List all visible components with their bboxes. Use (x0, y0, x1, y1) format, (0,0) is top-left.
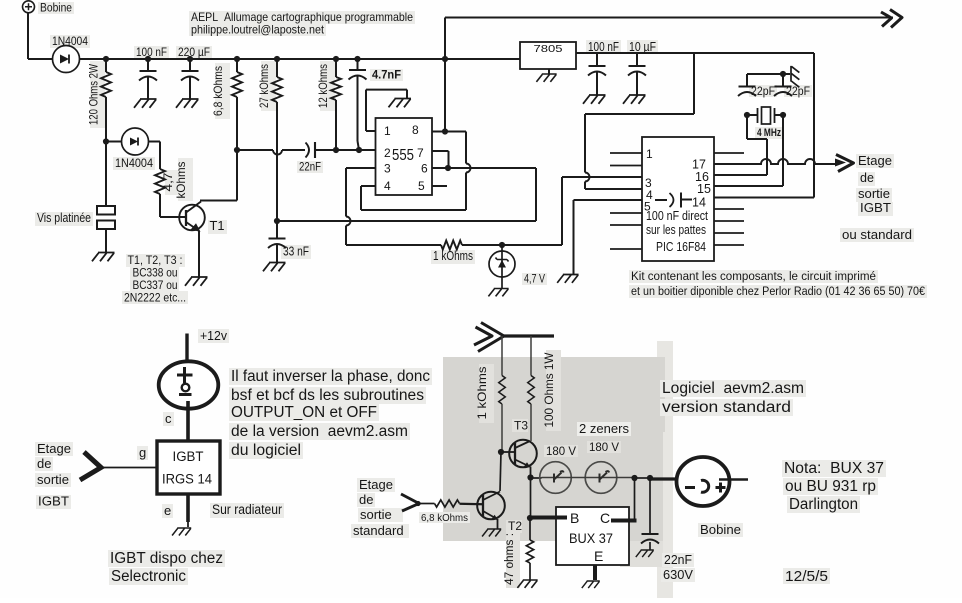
svg-text:sortie: sortie (858, 187, 890, 201)
svg-text:6,8 kOhms: 6,8 kOhms (211, 66, 225, 116)
svg-text:Vis platinée: Vis platinée (37, 211, 91, 225)
svg-text:version standard: version standard (662, 399, 791, 416)
wire IGBT emitter (186, 494, 190, 522)
svg-text:PIC 16F84: PIC 16F84 (656, 239, 706, 254)
transistor T3 (509, 440, 537, 468)
svg-text:Logiciel aevm2.asm: Logiciel aevm2.asm (662, 380, 804, 397)
svg-text:47 ohms :: 47 ohms : (504, 533, 516, 585)
zener diode 180V left (540, 462, 572, 494)
svg-text:22nF: 22nF (299, 162, 321, 174)
wire T1 collector node (236, 150, 238, 201)
capacitor 220 uF (rail) (187, 56, 193, 62)
ground under 7805 (536, 74, 556, 82)
capacitor 100 nF (5V) (596, 53, 598, 66)
ground under T2 (482, 529, 501, 536)
scan gray patch (657, 341, 673, 598)
junction B / 47ohm (527, 515, 533, 521)
wire PIC pin17 to output arrow with hops (714, 159, 836, 164)
svg-text:Darlington: Darlington (789, 496, 858, 513)
svg-text:100 nF: 100 nF (136, 45, 167, 59)
ignition coil Bobine (circle) (677, 457, 730, 506)
svg-text:10 µF: 10 µF (629, 40, 656, 54)
resistor 6,8 kOhms (234, 56, 240, 62)
ground under 4,7V zener (488, 289, 508, 297)
resistor 4,7 kOhms (159, 142, 161, 170)
svg-text:+12v: +12v (200, 328, 227, 343)
svg-text:14: 14 (692, 196, 706, 210)
svg-text:22pF: 22pF (786, 86, 810, 98)
capacitor 33 nF (276, 221, 278, 239)
svg-text:33 nF: 33 nF (283, 245, 309, 259)
svg-text:180 V: 180 V (589, 442, 619, 454)
resistor 1 kOhms (555 output) (441, 241, 462, 250)
svg-text:ou BU 931 rp: ou BU 931 rp (785, 478, 876, 495)
wire 7805 output 5V rail (576, 52, 814, 54)
IGBT module box (157, 441, 220, 494)
capacitor 4.7nF (354, 56, 360, 62)
resistor 120 Ohms 2W (105, 59, 107, 72)
svg-text:Bobine: Bobine (700, 522, 741, 537)
diode D1 1N4004 (circle) (53, 46, 80, 73)
svg-text:bsf et bcf ds les subroutines: bsf et bcf ds les subroutines (231, 387, 424, 404)
svg-text:IGBT: IGBT (38, 494, 69, 509)
junction 120ohm/diode/vis (103, 138, 109, 144)
ground under 100nF (134, 99, 157, 108)
svg-text:g: g (139, 445, 146, 460)
wire 555 pin1 to ground (366, 130, 376, 132)
junction 27k/33nF/pin6 node (274, 218, 280, 224)
svg-text:sur les pattes: sur les pattes (646, 223, 706, 237)
ground IGBT emitter (187, 522, 189, 527)
svg-text:c: c (165, 411, 172, 426)
svg-text:555: 555 (392, 147, 414, 164)
contact breaker Vis platinee (105, 142, 107, 207)
junction 6.8k / 22nF line / T1 collector (234, 147, 240, 153)
ground under 220uF (176, 99, 199, 108)
resistor 27 kOhms (274, 56, 280, 62)
svg-text:6: 6 (421, 162, 428, 176)
IC PIC 16F84 box (642, 137, 714, 261)
svg-text:Sur radiateur: Sur radiateur (212, 502, 282, 517)
ground under 22nF 630V (636, 550, 654, 557)
crystal 4 MHz (744, 112, 750, 118)
capacitor 10 uF (5V) (636, 53, 638, 66)
ground under 100nF 5V (583, 95, 606, 104)
svg-text:Etage: Etage (359, 477, 393, 492)
resistor 1 kOhms lower (501, 336, 503, 376)
svg-text:1N4004: 1N4004 (115, 156, 153, 170)
svg-text:sortie: sortie (360, 507, 392, 522)
svg-text:IGBT: IGBT (860, 201, 891, 215)
svg-text:T2: T2 (508, 519, 522, 533)
svg-text:e: e (164, 503, 171, 518)
PIC right pin stubs (714, 152, 744, 154)
wire 555 pin5 stub (432, 185, 447, 187)
svg-text:Etage: Etage (858, 154, 892, 168)
svg-text:3: 3 (384, 162, 391, 176)
svg-text:7805: 7805 (534, 43, 563, 55)
capacitor 22pF left (746, 74, 748, 87)
capacitor 100nF inside PIC pins 5-14 (655, 199, 667, 201)
svg-text:4,7 V: 4,7 V (524, 274, 545, 286)
arrow double chevron top right (881, 12, 892, 27)
svg-text:Kit contenant les composants,: Kit contenant les composants, le circuit… (631, 269, 876, 283)
svg-text:220 µF: 220 µF (178, 45, 210, 59)
zener diode 4,7V (489, 251, 515, 277)
wire 555 pin8 to +12V (432, 131, 445, 133)
wire T3emitter node down to B (530, 478, 532, 518)
ground crystal (rotated) (783, 73, 790, 75)
svg-text:4 MHz: 4 MHz (757, 127, 781, 139)
svg-text:E: E (594, 548, 603, 564)
capacitor 22pF right (782, 74, 784, 87)
zener diode 180V right (585, 462, 617, 494)
chevron etage de sortie standard (401, 494, 419, 511)
svg-text:4.7nF: 4.7nF (372, 70, 401, 82)
node Bobine terminal (+ circle) (23, 1, 35, 13)
wire main +12V rail (28, 58, 520, 60)
wire B lead (thick) (532, 516, 567, 520)
svg-text:1: 1 (646, 147, 653, 161)
junction rail/120ohm/diode2 (103, 56, 109, 62)
wire PIC pin16 to crystal (714, 174, 767, 176)
ground under vis platinee (92, 253, 115, 262)
ground under 33nF (263, 263, 286, 272)
svg-text:630V: 630V (663, 567, 693, 582)
svg-text:de: de (359, 492, 373, 507)
svg-text:standard: standard (353, 523, 404, 538)
svg-text:et un boitier diponible chez P: et un boitier diponible chez Perlor Radi… (631, 284, 925, 298)
transistor T2 (500, 452, 501, 491)
svg-text:120 Ohms 2W: 120 Ohms 2W (87, 63, 101, 125)
svg-text:2 zeners: 2 zeners (579, 421, 629, 436)
svg-text:12 kOhms: 12 kOhms (316, 64, 330, 108)
svg-text:22pF: 22pF (751, 86, 775, 98)
junction T3 emitter / zener rail (527, 474, 533, 480)
capacitor 100 nF (rail) (145, 56, 151, 62)
wire from bobine terminal down (27, 13, 29, 59)
svg-text:100 Ohms 1W: 100 Ohms 1W (542, 352, 556, 428)
svg-text:22nF: 22nF (664, 552, 692, 567)
resistor 100 Ohms 1W (530, 336, 532, 376)
svg-text:BUX 37: BUX 37 (569, 530, 613, 546)
svg-text:IGBT dispo chez: IGBT dispo chez (110, 550, 223, 567)
svg-text:15: 15 (697, 182, 711, 196)
svg-text:Etage: Etage (37, 441, 71, 456)
svg-text:12/5/5: 12/5/5 (785, 568, 828, 585)
wire to bobine (thick) (650, 477, 688, 480)
wire 555 pin7 tied to pin6 (432, 150, 449, 152)
svg-text:OUTPUT_ON et OFF: OUTPUT_ON et OFF (231, 404, 377, 421)
chevron etage de sortie IGBT input (80, 452, 101, 480)
PIC left pin stubs (610, 152, 642, 154)
svg-text:de: de (860, 171, 874, 185)
svg-text:2: 2 (384, 146, 391, 160)
svg-text:sortie: sortie (37, 472, 69, 487)
wire +12V to output stage arrow (top) (445, 17, 893, 19)
svg-text:philippe.loutrel@laposte.net: philippe.loutrel@laposte.net (191, 23, 325, 37)
junction T3 base / T2 collector (498, 449, 504, 455)
text halos (scan artifacts) (38, 2, 74, 14)
wire lower +12 feed (504, 334, 554, 337)
wire 22nF coupling line with hop over 27k (237, 149, 273, 151)
svg-text:IGBT: IGBT (173, 449, 204, 464)
junction 4.7nF / pin2 (356, 147, 362, 153)
svg-text:kOhms: kOhms (174, 162, 188, 199)
resistor 12 kOhms (333, 56, 339, 62)
wire PIC pin5 to ground (574, 199, 643, 201)
svg-text:100 nF direct: 100 nF direct (646, 209, 708, 223)
svg-text:180 V: 180 V (546, 446, 576, 458)
wire 22pF top link (747, 73, 783, 75)
wire 5V branch to PIC MCLR (693, 53, 695, 114)
wire 555 pin4 to pin8 loop (361, 185, 376, 187)
wire gate (102, 467, 157, 469)
svg-text:4: 4 (384, 179, 391, 193)
svg-text:de: de (37, 456, 51, 471)
svg-text:27 kOhms: 27 kOhms (257, 64, 271, 108)
transistor box BUX 37 (556, 507, 629, 565)
ground under 47 ohms (517, 580, 537, 588)
IC 555 timer box (376, 118, 433, 195)
svg-text:1: 1 (384, 124, 391, 138)
junction 22nF lead (647, 475, 653, 481)
svg-text:1 kOhms: 1 kOhms (475, 367, 489, 420)
svg-text:B: B (570, 510, 579, 526)
battery +12v symbol (185, 334, 188, 364)
svg-text:C: C (600, 510, 610, 526)
resistor 6,8 kOhms lower (419, 503, 435, 505)
svg-text:1N4004: 1N4004 (52, 34, 88, 48)
svg-text:T3: T3 (514, 419, 528, 433)
ground under E (582, 581, 600, 588)
svg-text:Bobine: Bobine (40, 3, 72, 15)
ground PIC pin5 (557, 275, 578, 283)
svg-text:2N2222 etc...: 2N2222 etc... (124, 291, 186, 305)
svg-text:T1: T1 (210, 219, 225, 233)
resistor 47 ohms (529, 518, 531, 540)
junction C lead (631, 475, 637, 481)
arrow input lower stage (478, 323, 504, 352)
svg-text:du logiciel: du logiciel (231, 442, 301, 459)
svg-text:Nota: BUX 37: Nota: BUX 37 (784, 460, 884, 477)
regulator 7805 (520, 42, 576, 69)
transistor T1 (179, 205, 205, 231)
wire C lead of BUX37 (634, 478, 636, 519)
junction 12k bottom (333, 147, 339, 153)
svg-text:IRGS 14: IRGS 14 (162, 472, 212, 487)
svg-text:5: 5 (418, 179, 425, 193)
arrow to Etage de sortie (835, 159, 846, 167)
svg-text:de la version aevm2.asm: de la version aevm2.asm (231, 423, 408, 440)
svg-text:100 nF: 100 nF (588, 40, 619, 54)
ground under 10uF (623, 95, 646, 104)
capacitor 22nF 630V (649, 478, 651, 533)
diode D2 1N4004 (circle) (106, 141, 122, 143)
svg-text:ou standard: ou standard (842, 228, 912, 242)
svg-text:1 kOhms: 1 kOhms (433, 249, 473, 263)
capacitor 22nF series (306, 143, 310, 158)
svg-text:4,7: 4,7 (161, 172, 175, 191)
svg-text:7: 7 (417, 146, 424, 160)
svg-text:Il faut inverser la phase, don: Il faut inverser la phase, donc (231, 368, 430, 385)
wire zener line to PIC pin3 (499, 242, 505, 248)
svg-text:Selectronic: Selectronic (111, 568, 186, 585)
wire 555 pin6 threshold (432, 167, 536, 169)
wire PIC pin15 to crystal (714, 185, 783, 187)
wire 555 pin3 output (346, 167, 376, 169)
ground under T1 (185, 277, 208, 286)
svg-text:6,8 kOhms: 6,8 kOhms (421, 512, 468, 524)
wire PIC pin14 to 5V (714, 197, 814, 199)
wire E lead (thick) (593, 565, 597, 580)
svg-text:8: 8 (412, 123, 419, 137)
ground 555 pin1 (389, 99, 412, 108)
wire zener rail (531, 477, 542, 479)
wire bobine right (719, 478, 748, 480)
